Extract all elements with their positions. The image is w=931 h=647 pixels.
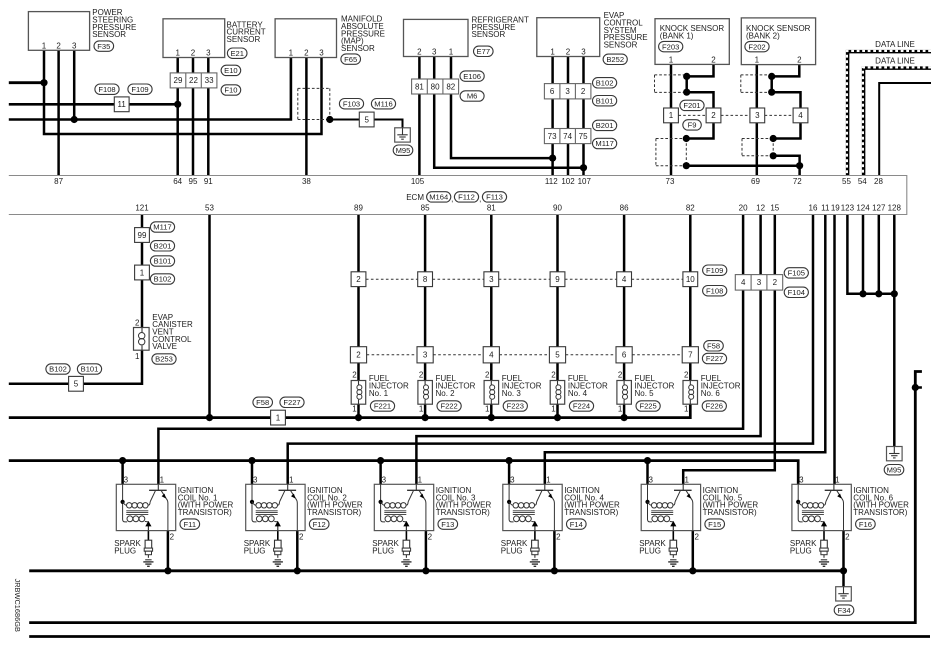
wire: power steering sensor pin 2 to ECM pin 87	[57, 50, 60, 175]
svg-text:16: 16	[809, 204, 818, 213]
svg-text:M6: M6	[467, 92, 478, 101]
wire: knock sensor bank2 pin 1 to ECM pin 69	[756, 65, 759, 176]
dashed link injector row1 5-6	[632, 278, 683, 280]
svg-text:No. 1: No. 1	[369, 389, 389, 398]
connector block 4 3 2	[735, 275, 782, 291]
joint connector 10 (injector row 1, No.6)	[683, 272, 698, 287]
svg-text:E77: E77	[477, 47, 491, 56]
EVAP canister vent control valve B253 (solenoid)	[134, 313, 193, 364]
svg-text:1: 1	[546, 475, 551, 484]
svg-text:2: 2	[485, 370, 490, 379]
wire: fuel injector No.5 pin 1 to ground bus	[623, 404, 626, 417]
wire: coil supply bus stub to ignition coil No.4 pin 3	[508, 461, 511, 485]
svg-text:B102: B102	[596, 79, 614, 88]
svg-text:M116: M116	[374, 99, 392, 108]
svg-text:F108: F108	[98, 85, 115, 94]
svg-text:PLUG: PLUG	[244, 547, 266, 556]
connector block 6 3 2	[544, 84, 591, 99]
wire: power steering sensor pin 3 drop	[73, 50, 76, 119]
svg-text:69: 69	[751, 177, 760, 186]
svg-text:M117: M117	[595, 139, 613, 148]
fuel injector No.2 F222	[418, 370, 476, 413]
svg-text:107: 107	[578, 177, 592, 186]
wire: coil supply bus stub to ignition coil No.1 pin 3	[121, 461, 124, 485]
svg-text:TRANSISTOR): TRANSISTOR)	[564, 508, 618, 517]
svg-text:F65: F65	[344, 55, 357, 64]
wire: ECM pin 89 to fuel injector No.1	[357, 215, 360, 381]
wire: fuel injector No.3 pin 1 to ground bus	[490, 404, 493, 417]
svg-text:81: 81	[415, 82, 424, 91]
svg-text:2: 2	[56, 41, 61, 50]
ECM label with connectors M164 F112 F113	[406, 192, 506, 204]
wire: fuel injector ground bus	[9, 404, 691, 417]
dashed link injector row2 5-6	[632, 354, 682, 356]
svg-text:73: 73	[548, 132, 557, 141]
svg-text:F226: F226	[706, 402, 723, 411]
joint connector 11 with F108 F109	[95, 84, 152, 112]
svg-text:3: 3	[565, 87, 570, 96]
svg-text:F227: F227	[283, 398, 300, 407]
svg-text:B101: B101	[81, 365, 99, 374]
wire: ignition coil No.4 pin 2 to ground bus	[553, 531, 556, 571]
wire: ignition coil No.5 pin 2 to ground bus	[692, 531, 695, 571]
dashed link injector row2 1-2	[367, 354, 417, 356]
wire: knock sensor bank1 connector 2 drop to lower shield	[686, 123, 713, 138]
ignition coil No.6 F16 (with power transistor)	[792, 475, 909, 541]
svg-text:2: 2	[581, 87, 586, 96]
svg-text:2: 2	[170, 533, 175, 542]
wire: ECM pin 15 to ignition coil No.5 pin 1	[683, 215, 775, 485]
svg-text:1: 1	[289, 49, 294, 58]
svg-text:3: 3	[489, 275, 494, 284]
svg-text:22: 22	[189, 76, 198, 85]
svg-text:73: 73	[666, 177, 675, 186]
joint connector 6 (injector row 2, No.5)	[616, 347, 632, 363]
joint connector 5 with B102 B101	[46, 364, 102, 391]
knock sensor bank2 upper shield (dashed)	[741, 75, 772, 93]
wire: MAP sensor pin 2 to ECM pin 38	[305, 58, 308, 176]
svg-text:F15: F15	[708, 520, 721, 529]
svg-text:F105: F105	[788, 269, 805, 278]
svg-text:1: 1	[42, 41, 47, 50]
wire: ignition coil No.2 pin 2 to ground bus	[296, 531, 299, 571]
svg-text:F222: F222	[440, 402, 457, 411]
connector F109	[703, 265, 727, 275]
svg-text:F202: F202	[748, 42, 765, 51]
svg-text:19: 19	[831, 204, 840, 213]
svg-text:3: 3	[581, 48, 586, 57]
connector block 29 22 33	[170, 73, 217, 88]
wire: ignition coil No.1 pin 2 to ground bus	[167, 531, 170, 571]
dashed link injector row1 1-2	[366, 278, 418, 280]
joint connector 4 (knock)	[793, 108, 808, 123]
wire: coil supply bus stub to ignition coil No.3 pin 3	[379, 461, 382, 485]
svg-text:F201: F201	[683, 101, 700, 110]
svg-text:4: 4	[489, 351, 494, 360]
svg-text:DATA LINE: DATA LINE	[875, 57, 915, 66]
svg-text:F227: F227	[706, 354, 723, 363]
svg-text:2: 2	[356, 275, 361, 284]
svg-text:B102: B102	[49, 365, 67, 374]
svg-text:2: 2	[352, 370, 357, 379]
connector E106	[460, 71, 484, 81]
svg-text:1: 1	[289, 475, 294, 484]
spark plug (cylinder 4)	[501, 539, 540, 566]
svg-text:SENSOR: SENSOR	[472, 30, 506, 39]
svg-text:1: 1	[551, 405, 556, 414]
wire: left feed 2 through joint 11 to battery current sensor pin 1	[9, 103, 178, 106]
svg-text:SENSOR: SENSOR	[341, 44, 375, 53]
svg-text:2: 2	[191, 49, 196, 58]
knock sensor bank 2 F202	[741, 18, 815, 65]
svg-text:6: 6	[550, 87, 555, 96]
svg-text:No. 6: No. 6	[701, 389, 721, 398]
wire: ignition coil No.3 pin 2 to ground bus	[425, 531, 428, 571]
svg-text:F104: F104	[788, 288, 805, 297]
ignition coil No.3 F13 (with power transistor)	[374, 475, 491, 541]
ground F34 (coil ground bus)	[834, 587, 854, 616]
joint connector 2 (knock)	[706, 108, 721, 123]
svg-text:F112: F112	[458, 193, 475, 202]
wire: knock sensor bank1 lower shield drain to ECM pin 72 joint	[686, 164, 799, 167]
svg-text:1: 1	[175, 49, 180, 58]
svg-text:5: 5	[555, 351, 560, 360]
svg-text:5: 5	[74, 380, 79, 389]
svg-text:3: 3	[510, 475, 515, 484]
svg-text:1: 1	[418, 475, 423, 484]
svg-text:F108: F108	[706, 286, 723, 295]
wire: MAP shield drain to ground M95	[330, 120, 403, 128]
svg-text:6: 6	[622, 351, 627, 360]
connector F58 (injector row)	[704, 341, 724, 351]
svg-text:1: 1	[684, 475, 689, 484]
wire: knock sensor bank1 shield to connector 2	[687, 92, 714, 108]
wire: ECM pin 81 to fuel injector No.3	[490, 215, 493, 381]
MAP sensor shield (dashed)	[298, 88, 330, 119]
knock sensor bank 1 F203	[655, 19, 729, 65]
wire: EVAP pressure sensor pin 3 to ECM pin 107	[582, 57, 585, 176]
svg-text:PLUG: PLUG	[372, 547, 394, 556]
spark plug (cylinder 6)	[790, 539, 829, 566]
wire: knock sensor bank1 pin 2 to shield corner	[687, 64, 714, 76]
svg-text:1: 1	[669, 56, 674, 65]
svg-text:1: 1	[669, 111, 674, 120]
wire: battery current sensor pin 2 to ECM pin 95	[192, 58, 195, 176]
svg-text:1: 1	[135, 352, 140, 361]
svg-text:B101: B101	[596, 96, 614, 105]
svg-text:121: 121	[135, 204, 149, 213]
joint connector 2 (injector row 1, No.1)	[351, 272, 366, 287]
svg-text:15: 15	[770, 204, 779, 213]
svg-text:1: 1	[140, 268, 145, 277]
svg-text:2: 2	[845, 533, 850, 542]
svg-text:2: 2	[711, 111, 716, 120]
svg-text:TRANSISTOR): TRANSISTOR)	[436, 508, 490, 517]
svg-text:11: 11	[821, 204, 830, 213]
svg-text:3: 3	[799, 475, 804, 484]
fuel injector No.6 F226	[683, 370, 741, 413]
svg-text:B252: B252	[606, 55, 624, 64]
svg-text:1: 1	[618, 405, 623, 414]
svg-text:1: 1	[485, 405, 490, 414]
joint connector 2 (injector row 2, No.1)	[350, 347, 366, 363]
knock sensor bank1 upper shield (dashed)	[655, 75, 687, 93]
svg-text:PLUG: PLUG	[114, 547, 136, 556]
svg-text:PLUG: PLUG	[790, 547, 812, 556]
svg-text:SENSOR: SENSOR	[92, 30, 126, 39]
fuel injector No.5 F225	[617, 370, 675, 413]
wire: ignition coil ground bus (pin 2 bus)	[29, 569, 843, 572]
svg-text:B253: B253	[155, 355, 173, 364]
ECM box	[9, 176, 907, 215]
svg-text:3: 3	[253, 475, 258, 484]
svg-text:,: ,	[451, 195, 453, 204]
svg-text:3: 3	[423, 351, 428, 360]
svg-text:PLUG: PLUG	[639, 547, 661, 556]
svg-text:85: 85	[421, 204, 430, 213]
wire: EVAP pressure sensor pin 1 to ECM pin 112	[551, 57, 554, 176]
wire: data line to ECM pin 28	[879, 83, 931, 176]
svg-text:F103: F103	[343, 99, 360, 108]
svg-text:1: 1	[550, 48, 555, 57]
dashed link knock connectors 3-4	[765, 114, 794, 116]
wire: ignition coil No.2 high tension lead to spark plug	[277, 531, 279, 541]
wire: knock sensor bank2 shield to connector 4	[772, 92, 801, 108]
svg-text:TRANSISTOR): TRANSISTOR)	[853, 508, 907, 517]
svg-text:29: 29	[174, 76, 183, 85]
svg-text:F109: F109	[131, 85, 148, 94]
svg-text:4: 4	[741, 278, 746, 287]
ECM bottom pin numbers	[135, 204, 901, 213]
wire: ECM pin 11 to ignition coil No.4 pin 1	[545, 215, 826, 485]
wire: ignition coil supply bus (pin 3 bus)	[9, 461, 798, 485]
svg-text:No. 2: No. 2	[436, 389, 456, 398]
svg-text:2: 2	[304, 49, 309, 58]
wire: ECM pin 127 drop	[878, 215, 881, 294]
svg-text:E10: E10	[224, 66, 238, 75]
wire: fuel injector No.2 pin 1 to ground bus	[424, 404, 427, 417]
ignition coil No.2 F12 (with power transistor)	[246, 475, 363, 541]
svg-text:F221: F221	[374, 402, 391, 411]
connector B201 (top)	[593, 120, 617, 130]
svg-text:1: 1	[449, 48, 454, 57]
connector F105	[784, 268, 808, 278]
svg-text:2: 2	[299, 533, 304, 542]
svg-text:82: 82	[446, 82, 455, 91]
battery current sensor E21	[163, 19, 266, 59]
svg-text:3: 3	[72, 41, 77, 50]
svg-text:3: 3	[757, 278, 762, 287]
svg-text:55: 55	[842, 177, 851, 186]
connector B102 (top)	[593, 78, 617, 88]
svg-text:F16: F16	[859, 520, 872, 529]
wire: knock sensor bank2 connector 4 drop to lower shield	[773, 123, 800, 138]
svg-text:M164: M164	[429, 193, 448, 202]
dashed link injector row2 4-5	[566, 354, 616, 356]
svg-text:2: 2	[566, 48, 571, 57]
joint connector 3 (knock)	[750, 108, 765, 123]
svg-text:B102: B102	[154, 275, 172, 284]
spark plug (cylinder 2)	[244, 539, 283, 566]
svg-text:3: 3	[319, 49, 324, 58]
connector B101 (top)	[593, 96, 617, 106]
svg-text:3: 3	[382, 475, 387, 484]
wire: ECM pin 86 to fuel injector No.5	[623, 215, 626, 381]
connector F104	[784, 287, 808, 297]
svg-text:10: 10	[686, 275, 695, 284]
svg-text:E21: E21	[230, 49, 244, 58]
svg-text:M117: M117	[153, 223, 171, 232]
svg-text:No. 5: No. 5	[635, 389, 655, 398]
wire: ECM pin 82 to fuel injector No.6	[689, 215, 692, 381]
svg-text:F58: F58	[256, 398, 269, 407]
wire: ECM pin 90 to fuel injector No.4	[556, 215, 559, 381]
svg-text:82: 82	[686, 204, 695, 213]
svg-text:3: 3	[124, 475, 129, 484]
svg-text:99: 99	[138, 231, 147, 240]
svg-text:8: 8	[423, 275, 428, 284]
svg-text:2: 2	[773, 278, 778, 287]
svg-text:2: 2	[428, 533, 433, 542]
dashed link injector row1 2-3	[433, 278, 484, 280]
svg-text:F223: F223	[507, 402, 524, 411]
joint connector 8 (injector row 1, No.2)	[418, 272, 433, 287]
svg-text:1: 1	[419, 405, 424, 414]
fuel injector No.3 F223	[484, 370, 542, 413]
svg-text:28: 28	[874, 177, 883, 186]
connector F227 (injector row)	[702, 353, 726, 363]
svg-text:89: 89	[354, 204, 363, 213]
svg-text:F109: F109	[706, 266, 723, 275]
connector E10	[221, 65, 241, 75]
svg-text:90: 90	[553, 204, 562, 213]
svg-text:2: 2	[135, 318, 140, 327]
svg-text:VALVE: VALVE	[152, 342, 177, 351]
svg-text:95: 95	[189, 177, 198, 186]
svg-text:F9: F9	[688, 121, 697, 130]
connector F108	[703, 286, 727, 296]
wire: EVAP pressure sensor pin 2 to ECM pin 102	[567, 57, 570, 176]
ground M95 (ECM pin 128)	[884, 447, 904, 475]
svg-text:SENSOR: SENSOR	[227, 35, 261, 44]
wire: knock sensor bank2 shield edge	[770, 76, 773, 92]
joint connector 3 (injector row 1, No.3)	[484, 272, 499, 287]
svg-text:2: 2	[618, 370, 623, 379]
svg-text:JRBWC1686GB: JRBWC1686GB	[13, 579, 22, 632]
svg-text:2: 2	[684, 370, 689, 379]
svg-text:ECM: ECM	[406, 193, 424, 202]
wire: battery current sensor pin 3 to ECM pin 91	[207, 58, 210, 176]
wire: ignition coil No.5 high tension lead to spark plug	[672, 531, 674, 541]
svg-text:127: 127	[872, 204, 886, 213]
wire: power steering sensor pin 1 to MAP sensor pin 3	[44, 50, 322, 134]
wire: refrigerant pressure sensor pin 1 joins EVAP pin 1 wire	[451, 57, 553, 159]
svg-text:91: 91	[204, 177, 213, 186]
svg-text:F10: F10	[224, 86, 237, 95]
svg-text:SENSOR: SENSOR	[604, 40, 638, 49]
svg-text:64: 64	[173, 177, 182, 186]
svg-text:102: 102	[561, 177, 575, 186]
dashed link injector row1 4-5	[565, 278, 617, 280]
wire: fuel injector No.4 pin 1 to ground bus	[556, 404, 559, 417]
svg-text:F203: F203	[662, 42, 679, 51]
wire: ECM pin 123 ground merge	[847, 215, 894, 294]
svg-text:105: 105	[411, 177, 425, 186]
svg-text:B201: B201	[154, 242, 172, 251]
wire: ECM pin 53 to injector ground bus	[208, 215, 211, 418]
wire: ignition coil No.6 high tension lead to spark plug	[823, 531, 825, 541]
wire: coil supply bus stub to ignition coil No.5 pin 3	[646, 461, 649, 485]
wire: knock sensor bank2 shield drain down to ECM pin 72	[773, 156, 799, 176]
joint connector 7 (injector row 2, No.6)	[682, 347, 698, 363]
wire: ECM pin 16 to ignition coil No.2 pin 1	[288, 215, 813, 485]
svg-text:1: 1	[755, 56, 760, 65]
connector block 73 74 75	[544, 129, 591, 144]
svg-text:1: 1	[352, 405, 357, 414]
ground M95 (MAP shield)	[393, 128, 413, 156]
dashed link knock connectors 2-3	[721, 114, 750, 116]
wire: right edge stub at junction	[915, 386, 922, 389]
connector M117 (top)	[593, 138, 617, 148]
svg-text:3: 3	[648, 475, 653, 484]
wire: battery current sensor pin 1 to ECM pin 64	[176, 58, 179, 176]
svg-text:123: 123	[841, 204, 855, 213]
svg-text:2: 2	[694, 533, 699, 542]
svg-text:3: 3	[755, 111, 760, 120]
connector block 81 80 82	[412, 79, 459, 94]
svg-text:54: 54	[858, 177, 867, 186]
wire: left feed 3 to MAP sensor pin 1	[9, 58, 291, 120]
wire: ignition coil No.4 high tension lead to spark plug	[534, 531, 536, 541]
svg-text:F58: F58	[707, 342, 720, 351]
svg-text:38: 38	[302, 177, 311, 186]
svg-text:F34: F34	[837, 606, 850, 615]
svg-text:86: 86	[620, 204, 629, 213]
svg-text:M95: M95	[396, 146, 411, 155]
svg-text:2: 2	[797, 56, 802, 65]
fuel injector No.4 F224	[550, 370, 608, 413]
svg-text:F35: F35	[97, 42, 110, 51]
svg-text:TRANSISTOR): TRANSISTOR)	[307, 508, 361, 517]
svg-text:128: 128	[888, 204, 902, 213]
svg-text:F113: F113	[486, 193, 503, 202]
EVAP control system pressure sensor B252	[537, 11, 648, 64]
svg-text:11: 11	[118, 100, 127, 109]
joint connector 4 (injector row 2, No.3)	[483, 347, 499, 363]
joint connector 3 (injector row 2, No.2)	[417, 347, 433, 363]
wire: knock sensor bank1 shield edge	[685, 76, 688, 92]
svg-text:3: 3	[432, 48, 437, 57]
svg-text:9: 9	[555, 275, 560, 284]
ignition coil No.5 F15 (with power transistor)	[641, 475, 758, 541]
wire: bottom rail 2	[29, 635, 930, 638]
svg-text:1: 1	[160, 475, 165, 484]
wire: ignition coil No.3 high tension lead to spark plug	[405, 531, 407, 541]
wire: coil supply bus stub to ignition coil No.2 pin 3	[251, 461, 254, 485]
wire: refrigerant pressure sensor pin 3 joins EVAP pin 3 wire	[434, 57, 583, 168]
wire: ECM pin 121 to EVAP canister vent control valve pin 2	[141, 215, 144, 328]
svg-text:No. 3: No. 3	[502, 389, 522, 398]
wire: coil ground bus to ground F34	[842, 571, 845, 587]
svg-text:DATA LINE: DATA LINE	[875, 40, 915, 49]
wire: ECM pin 85 to fuel injector No.2	[424, 215, 427, 381]
wire: right edge feed down to bottom rail	[29, 372, 922, 623]
svg-text:PLUG: PLUG	[501, 547, 523, 556]
svg-text:5: 5	[364, 115, 369, 124]
svg-text:33: 33	[205, 76, 214, 85]
dashed link injector row2 3-4	[499, 354, 549, 356]
svg-text:2: 2	[356, 351, 361, 360]
